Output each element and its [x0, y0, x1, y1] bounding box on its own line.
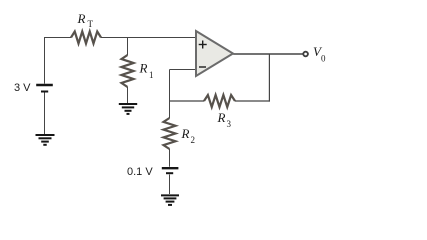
svg-text:2: 2: [191, 135, 196, 145]
svg-text:0.1 V: 0.1 V: [127, 166, 153, 178]
svg-text:3 V: 3 V: [14, 82, 31, 94]
svg-text:T: T: [88, 19, 94, 29]
svg-text:3: 3: [227, 119, 232, 129]
svg-text:R: R: [181, 126, 190, 141]
svg-text:0: 0: [321, 54, 326, 64]
svg-text:R: R: [139, 61, 148, 76]
svg-text:R: R: [217, 110, 226, 125]
svg-text:1: 1: [149, 70, 154, 80]
svg-text:R: R: [77, 11, 86, 26]
